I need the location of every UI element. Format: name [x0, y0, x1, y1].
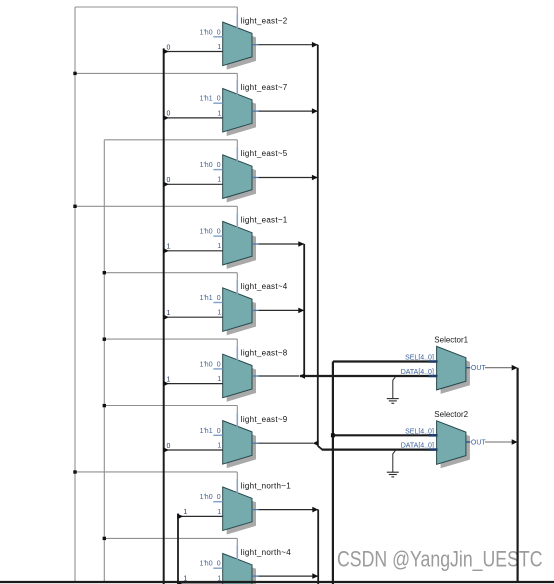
svg-text:1'h0: 1'h0: [200, 162, 213, 169]
svg-text:1'h0: 1'h0: [200, 229, 213, 236]
port label 0 of light_north~4: [217, 561, 221, 568]
svg-text:DATA[4..0]: DATA[4..0]: [401, 369, 434, 376]
svg-text:light_east~8: light_east~8: [241, 349, 288, 358]
wire select rail B: [103, 140, 105, 582]
wire horizontal bus at bottom: [0, 581, 554, 583]
port label 0 of light_east~1: [217, 229, 221, 236]
mux light_north~4 body: [223, 554, 252, 584]
mux light_east~5 shadow: [227, 159, 256, 203]
port label 0 of light_east~7: [217, 96, 221, 103]
wire SEL bus into Selector2: [333, 434, 438, 436]
port label OUT of Selector1: [470, 364, 486, 372]
wire output of light_east~1 to collector V0: [252, 243, 304, 245]
wire port-1 input of light_east~7: [164, 117, 223, 119]
component Selector2 shadow: [441, 425, 470, 469]
mux light_east~2 body: [223, 22, 252, 66]
junction dot select rail (104.3,339.2): [103, 338, 106, 341]
constant 1'h0 stub into port-0 of light_east~1: [213, 235, 222, 237]
constant value label 1'h1 of light_east~4: [200, 295, 213, 302]
junction arrow port-1 of light_east~4: [163, 314, 169, 320]
mux light_east~8 shadow: [227, 358, 256, 402]
svg-text:1: 1: [217, 44, 221, 51]
mux light_north~1 shadow: [227, 491, 256, 535]
svg-text:light_north~1: light_north~1: [241, 481, 291, 490]
wire select feed for light_east~9: [104, 406, 237, 427]
svg-text:1: 1: [217, 243, 221, 250]
constant 1'h0 stub into port-0 of light_east~8: [213, 368, 222, 370]
mux light_east~1 body: [223, 221, 252, 265]
junction dot select rail (75,472): [73, 470, 76, 473]
junction arrow output of light_east~5: [312, 175, 318, 181]
svg-text:1: 1: [167, 244, 171, 251]
wire output of light_north~4 to collector V1b: [252, 575, 318, 577]
watermark CSDN @YangJin_UESTC: [337, 547, 543, 572]
svg-text:0: 0: [217, 428, 221, 435]
junction arrow output of light_east~2: [312, 42, 318, 48]
instance label light_east~4: [241, 282, 288, 291]
port label 1 of light_east~5: [217, 177, 221, 184]
svg-text:light_east~2: light_east~2: [241, 16, 288, 25]
constant 1'h1 stub into port-0 of light_east~4: [213, 302, 222, 304]
mux light_east~9 body: [223, 421, 252, 465]
constant 1'h0 stub into port-0 of light_north~4: [213, 567, 222, 569]
instance label light_east~2: [241, 16, 288, 25]
wire feedback trunk: [163, 48, 165, 584]
wire port-1 input of light_north~1: [178, 515, 223, 517]
junction arrow port-1 of light_north~1: [177, 514, 183, 520]
junction arrow output of light_east~1: [298, 241, 304, 247]
svg-text:light_east~9: light_east~9: [241, 415, 288, 424]
instance label light_east~9: [241, 415, 288, 424]
svg-text:light_east~5: light_east~5: [241, 149, 288, 158]
port label 1 of light_east~7: [217, 110, 221, 117]
port label 1 of light_north~4: [217, 575, 221, 582]
wire OUT of Selector2: [466, 441, 512, 443]
svg-text:0: 0: [217, 96, 221, 103]
wire output of light_east~5 to collector V1a: [252, 177, 318, 179]
constant 1'h0 stub into port-0 of light_north~1: [213, 501, 222, 503]
junction arrow output of light_north~4: [312, 573, 318, 579]
net index label 0 for light_east~5: [167, 177, 171, 184]
instance label light_north~4: [241, 548, 291, 557]
constant 1'h0 stub into port-0 of light_east~2: [213, 36, 222, 38]
mux light_east~2 shadow: [227, 26, 256, 70]
wire port-1 input of light_east~2: [164, 51, 223, 53]
mux light_north~1 body: [223, 487, 252, 531]
wire output of light_east~2 to collector V1a: [252, 44, 318, 46]
svg-text:1: 1: [217, 376, 221, 383]
svg-text:CSDN @YangJin_UESTC: CSDN @YangJin_UESTC: [337, 547, 543, 572]
svg-text:0: 0: [217, 162, 221, 169]
wire select rail A: [74, 7, 76, 582]
port label 1 of light_east~9: [217, 442, 221, 449]
instance label light_north~1: [241, 481, 291, 490]
svg-text:Selector1: Selector1: [434, 335, 468, 344]
junction arrow port-1 of light_east~8: [163, 381, 169, 387]
component Selector2 body: [437, 421, 466, 465]
svg-text:OUT: OUT: [471, 365, 487, 372]
wire output of light_north~1 to collector V1b: [252, 509, 318, 511]
wire output of light_east~9: [252, 442, 313, 444]
wire output of light_east~7 to collector V1a: [252, 110, 318, 112]
constant value label 1'h0 of light_east~1: [200, 229, 213, 236]
wire output of light_east~8 / DATA bus into Selector1: [252, 375, 438, 377]
svg-text:SEL[4..0]: SEL[4..0]: [405, 429, 434, 436]
junction dot select rail (75,73.4): [73, 72, 76, 75]
port label 1 of light_east~2: [217, 44, 221, 51]
svg-text:1: 1: [167, 310, 171, 317]
junction arrow port-1 of light_east~1: [163, 248, 169, 254]
net index label 1 for light_east~4: [167, 310, 171, 317]
svg-text:0: 0: [217, 295, 221, 302]
svg-text:1: 1: [217, 509, 221, 516]
port label 0 of light_east~5: [217, 162, 221, 169]
wire port-1 input of light_east~1: [164, 250, 223, 252]
port label DATA[4..0] of Selector1: [401, 369, 434, 376]
net index label 1 for light_east~8: [167, 376, 171, 383]
junction dot select rail (104.3,272.7): [103, 271, 106, 274]
junction arrow port-1 of light_east~7: [163, 115, 169, 121]
svg-text:0: 0: [217, 361, 221, 368]
svg-text:1'h0: 1'h0: [200, 494, 213, 501]
port label SEL[4..0] of Selector2: [405, 429, 434, 436]
title label Selector2: [434, 410, 468, 419]
svg-text:1: 1: [217, 442, 221, 449]
svg-text:light_north~4: light_north~4: [241, 548, 291, 557]
svg-text:OUT: OUT: [471, 439, 487, 446]
net index label 0 for light_east~7: [167, 111, 171, 118]
junction arrow OUT of Selector1 into output trunk: [512, 365, 518, 371]
svg-text:0: 0: [167, 44, 171, 51]
svg-text:1'h0: 1'h0: [200, 29, 213, 36]
wire OUT of Selector1: [466, 367, 512, 369]
svg-text:1: 1: [183, 509, 187, 516]
svg-text:light_east~7: light_east~7: [241, 83, 288, 92]
constant 1'h0 stub into port-0 of light_east~5: [213, 169, 222, 171]
svg-text:1: 1: [217, 177, 221, 184]
svg-text:0: 0: [167, 111, 171, 118]
junction dot select rail (104.3,405.6): [103, 404, 106, 407]
net index label 0 for light_east~9: [167, 443, 171, 450]
wire port-1 input of light_east~9: [164, 449, 223, 451]
mux light_east~9 shadow: [227, 425, 256, 469]
component Selector1 shadow: [441, 350, 470, 394]
svg-text:0: 0: [167, 177, 171, 184]
port label 1 of light_north~1: [217, 509, 221, 516]
svg-text:0: 0: [217, 561, 221, 568]
junction arrow port-1 of light_east~9: [163, 447, 169, 453]
wire output of light_east~4 to collector V0: [252, 309, 304, 311]
constant value label 1'h0 of light_east~2: [200, 29, 213, 36]
instance label light_east~7: [241, 83, 288, 92]
svg-text:0: 0: [167, 443, 171, 450]
merge arrow of collector V1a into light_east~9 output: [313, 440, 319, 446]
svg-text:0: 0: [217, 29, 221, 36]
svg-text:1'h0: 1'h0: [200, 561, 213, 568]
net index label 1 for light_north~1: [183, 509, 187, 516]
junction dot select rail (75,206.3): [73, 205, 76, 208]
svg-text:1: 1: [167, 376, 171, 383]
net index label 1 for light_east~1: [167, 244, 171, 251]
wire select feed for light_north~4: [104, 538, 237, 559]
svg-text:light_east~4: light_east~4: [241, 282, 288, 291]
mux light_east~4 shadow: [227, 292, 256, 336]
svg-text:SEL[4..0]: SEL[4..0]: [405, 355, 434, 362]
constant value label 1'h0 of light_north~1: [200, 494, 213, 501]
constant 1'h1 stub into port-0 of light_east~7: [213, 102, 222, 104]
wire SEL bus rail V2: [332, 362, 334, 584]
port label 1 of light_east~8: [217, 376, 221, 383]
instance label light_east~8: [241, 349, 288, 358]
ground below Selector1 DATA: [387, 377, 399, 404]
junction arrow port-1 of light_east~5: [163, 182, 169, 188]
wire collector V1b (outputs of light_north~1/4): [317, 510, 319, 584]
constant value label 1'h0 of light_east~5: [200, 162, 213, 169]
wire select feed for light_east~2: [75, 7, 237, 28]
port label SEL[4..0] of Selector1: [405, 355, 434, 362]
mux light_north~4 shadow: [227, 558, 256, 584]
mux light_east~4 body: [223, 288, 252, 332]
junction arrow output of light_east~4: [298, 308, 304, 314]
svg-text:1: 1: [217, 110, 221, 117]
port label 0 of light_east~8: [217, 361, 221, 368]
constant value label 1'h1 of light_east~7: [200, 96, 213, 103]
svg-text:1'h1: 1'h1: [200, 295, 213, 302]
wire select feed for light_east~1: [75, 206, 237, 227]
wire SEL bus into Selector1: [333, 360, 438, 362]
junction arrow output of light_east~7: [312, 108, 318, 114]
junction dot select rail (104.3,538.4): [103, 537, 106, 540]
svg-text:1'h1: 1'h1: [200, 428, 213, 435]
wire output trunk V3: [516, 368, 518, 582]
constant 1'h1 stub into port-0 of light_east~9: [213, 434, 222, 436]
wire select feed for light_east~7: [75, 73, 237, 94]
svg-text:1'h1: 1'h1: [200, 96, 213, 103]
svg-text:0: 0: [217, 229, 221, 236]
port label DATA[4..0] of Selector2: [401, 442, 434, 449]
junction dot SEL rail / Selector2 SEL: [331, 433, 335, 437]
port label 0 of light_north~1: [217, 494, 221, 501]
port label 1 of light_east~1: [217, 243, 221, 250]
net index label 1 for light_north~4: [183, 576, 187, 583]
title label Selector1: [434, 335, 468, 344]
merge arrow of collector V0 into DATA bus: [299, 373, 305, 379]
component Selector1 body: [437, 346, 466, 390]
wire select feed for light_east~5: [104, 140, 237, 161]
constant value label 1'h0 of light_north~4: [200, 561, 213, 568]
wire collector V0 (outputs of light_east~1/4): [303, 244, 305, 376]
mux light_east~8 body: [223, 354, 252, 398]
svg-text:0: 0: [217, 494, 221, 501]
port label OUT of Selector2: [470, 438, 486, 446]
svg-text:1'h0: 1'h0: [200, 361, 213, 368]
port label 0 of light_east~9: [217, 428, 221, 435]
mux light_east~1 shadow: [227, 225, 256, 269]
wire port-1 input of light_north~4: [178, 582, 223, 584]
wire select feed for light_north~1: [75, 472, 237, 493]
mux light_east~5 body: [223, 155, 252, 199]
svg-text:1: 1: [217, 310, 221, 317]
wire port-1 input of light_east~4: [164, 316, 223, 318]
junction arrow OUT of Selector2 into output trunk: [512, 439, 518, 445]
ground below Selector2 DATA: [387, 450, 399, 477]
port label 1 of light_east~4: [217, 310, 221, 317]
wire port-1 input of light_east~5: [164, 183, 223, 185]
constant value label 1'h0 of light_east~8: [200, 361, 213, 368]
svg-text:light_east~1: light_east~1: [241, 216, 288, 225]
mux light_east~7 body: [223, 89, 252, 133]
net index label 0 for light_east~2: [167, 44, 171, 51]
wire select feed for light_east~8: [104, 339, 237, 360]
instance label light_east~5: [241, 149, 288, 158]
instance label light_east~1: [241, 216, 288, 225]
mux light_east~7 shadow: [227, 93, 256, 137]
constant value label 1'h1 of light_east~9: [200, 428, 213, 435]
wire collector V1a (outputs of light_east~2/7/5): [318, 45, 323, 450]
svg-text:Selector2: Selector2: [434, 410, 468, 419]
wire DATA bus into Selector2: [322, 449, 438, 451]
port label 0 of light_east~2: [217, 29, 221, 36]
wire rail C (north feedback): [177, 514, 179, 584]
junction arrow port-1 of light_north~4: [177, 580, 183, 584]
port label 0 of light_east~4: [217, 295, 221, 302]
wire select feed for light_east~4: [104, 273, 237, 294]
svg-text:DATA[4..0]: DATA[4..0]: [401, 442, 434, 449]
junction arrow output of light_north~1: [312, 507, 318, 513]
wire port-1 input of light_east~8: [164, 383, 223, 385]
junction arrow port-1 of light_east~2: [163, 49, 169, 55]
